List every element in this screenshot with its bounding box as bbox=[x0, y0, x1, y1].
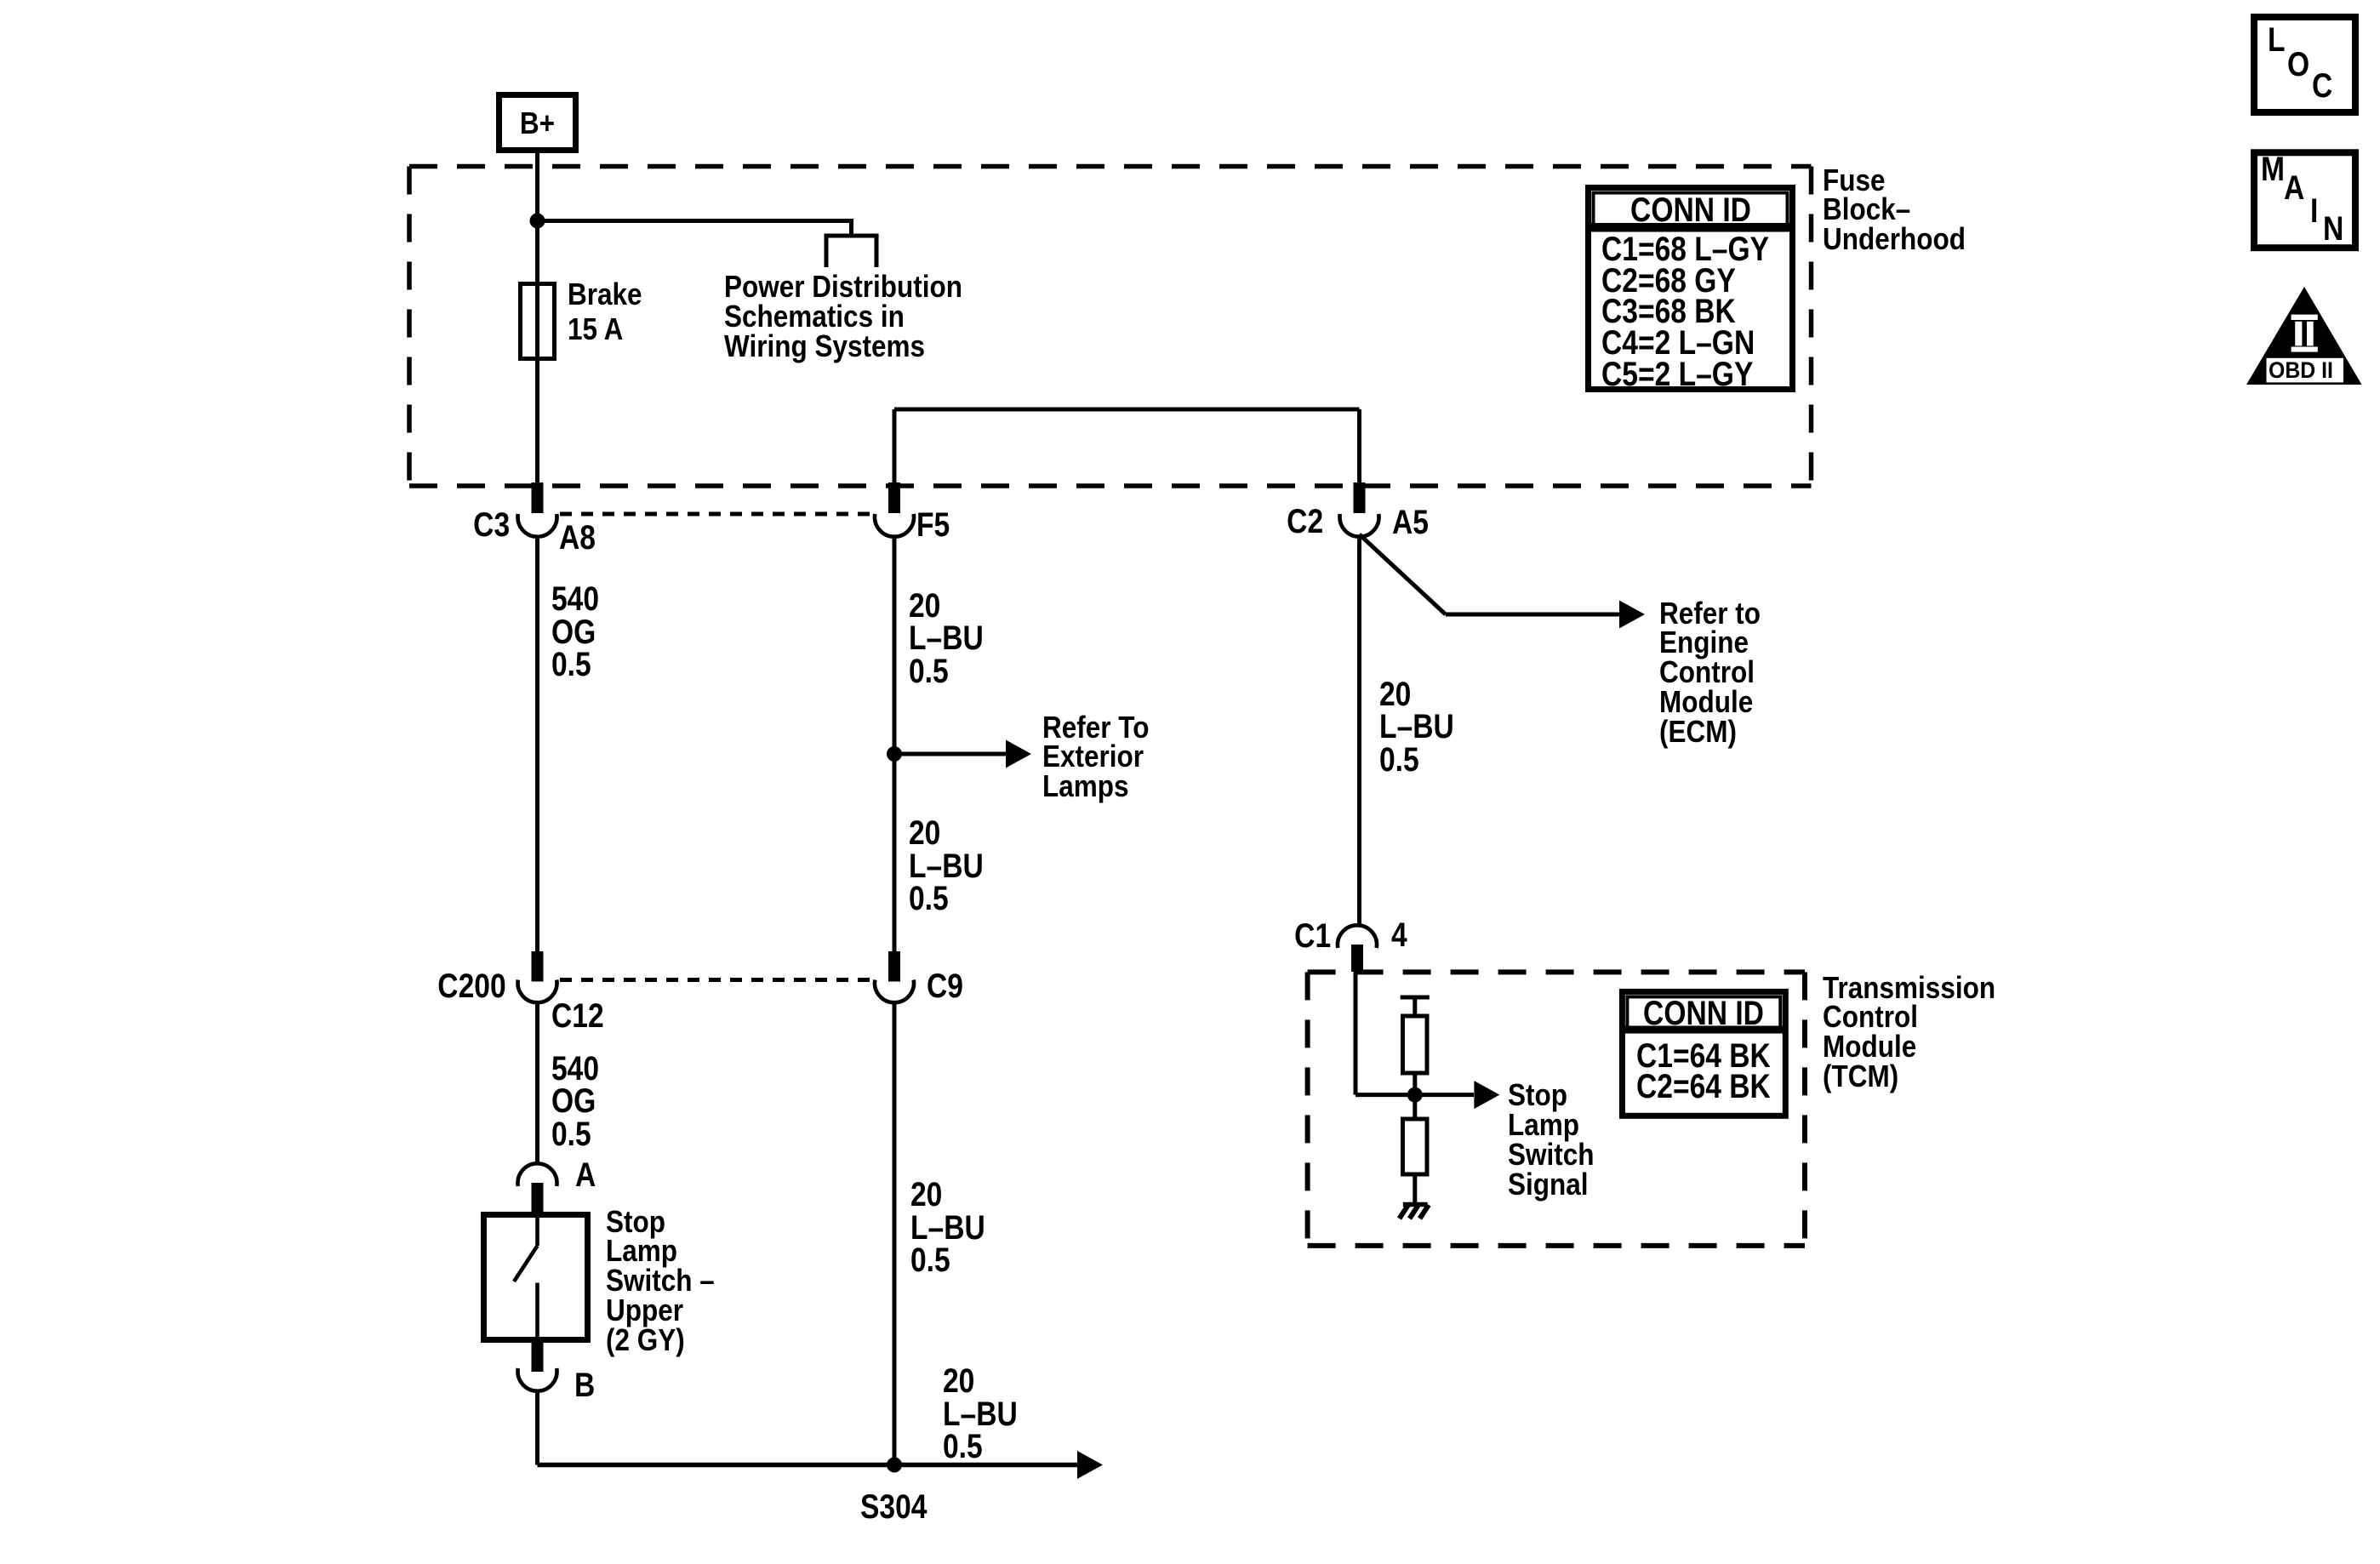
label C1 bbox=[1294, 920, 1331, 953]
label A bbox=[575, 1159, 596, 1192]
fuse Brake 15 A bbox=[521, 284, 555, 359]
off-page bracket (power distribution) bbox=[825, 236, 879, 267]
label stop lamp switch upper bbox=[606, 1207, 715, 1356]
wire label 20 L-BU 0.5 at C9 bbox=[910, 1179, 985, 1277]
connector C1/4 pin bbox=[1351, 945, 1363, 972]
switch contacts bbox=[514, 1212, 538, 1343]
note power distribution schematics bbox=[724, 272, 962, 361]
wire branch to power distribution bracket bbox=[538, 219, 852, 236]
wire junction to resistor lower bbox=[1413, 1095, 1417, 1119]
connector C9 terminal cup bbox=[875, 980, 914, 1003]
OBD II triangle symbol bbox=[2246, 287, 2362, 385]
junction node on B+ feed bbox=[530, 214, 545, 229]
connector F5 terminal cup bbox=[875, 514, 914, 537]
LOC letters bbox=[2268, 24, 2286, 57]
pull-up terminal bar bbox=[1401, 997, 1430, 1016]
CONN ID table (TCM) bbox=[1622, 991, 1786, 1116]
TCM dashed border bbox=[1308, 972, 1805, 1246]
wire 540 OG C200 to switch bbox=[535, 1003, 539, 1164]
note refer to ECM bbox=[1659, 599, 1761, 747]
wire 20 L-BU F5 down bbox=[893, 537, 897, 951]
note stop lamp switch signal bbox=[1508, 1081, 1595, 1199]
label A5 bbox=[1392, 506, 1429, 539]
CONN ID header (fuse block) bbox=[1603, 195, 1778, 226]
connector C2/A5 terminal cup bbox=[1340, 514, 1379, 537]
connector C3/A8 terminal cup bbox=[518, 514, 557, 537]
connector C1/4 arc bbox=[1338, 925, 1377, 948]
bottom wire to S304 and onward arrow bbox=[538, 1451, 1104, 1479]
label F5 bbox=[916, 509, 950, 542]
wire label 20 L-BU 0.5 below exterior lamps tap bbox=[909, 817, 984, 916]
wire 20 L-BU C2 down to C1 bbox=[1357, 537, 1361, 925]
connector C200/C12 terminal cup bbox=[518, 980, 557, 1003]
wire resistor to junction bbox=[1413, 1073, 1417, 1095]
label S304 bbox=[860, 1491, 927, 1524]
junction node stop lamp switch signal bbox=[1407, 1087, 1423, 1103]
wire C1 into TCM bbox=[1356, 972, 1415, 1095]
wire resistor to ground bbox=[1413, 1174, 1417, 1202]
connector C200/C12 pin bbox=[532, 951, 544, 982]
connector C9 pin bbox=[888, 951, 900, 982]
CONN ID header (TCM) bbox=[1635, 998, 1772, 1030]
note fuse block underhood bbox=[1823, 166, 1966, 254]
wire label 20 L-BU 0.5 at C2 bbox=[1379, 678, 1454, 777]
connector A arc bbox=[518, 1163, 557, 1186]
label B bbox=[574, 1369, 595, 1402]
wire label 20 L-BU 0.5 at F5 bbox=[909, 590, 984, 688]
MAIN symbol box bbox=[2254, 152, 2355, 248]
CONN ID table (fuse block) bbox=[1588, 188, 1793, 390]
label C9 bbox=[927, 970, 963, 1003]
wire label 20 L-BU 0.5 at S304 bbox=[943, 1365, 1018, 1464]
inline connector dashed line C3-F5 bbox=[560, 512, 871, 517]
label 4 bbox=[1391, 919, 1407, 952]
OBD II text bbox=[2269, 359, 2333, 382]
label C2 bbox=[1287, 505, 1323, 539]
wire 540 OG C3 to C200 bbox=[535, 537, 539, 951]
label C200 bbox=[438, 970, 506, 1003]
inline connector dashed line C200-C9 bbox=[560, 978, 871, 982]
wire label 540 OG 0.5 lower bbox=[551, 1053, 599, 1151]
branch wire to ECM arrow bbox=[1360, 534, 1646, 629]
splice node S304 bbox=[887, 1458, 902, 1473]
MAIN letters bbox=[2261, 153, 2285, 186]
note transmission control module TCM bbox=[1823, 973, 1995, 1092]
label B+ bbox=[501, 109, 574, 139]
arrow stop lamp switch signal bbox=[1415, 1081, 1500, 1109]
wire switch B down bbox=[535, 1391, 539, 1465]
wire label 540 OG 0.5 upper bbox=[551, 583, 599, 682]
fuse block dashed border bbox=[409, 167, 1812, 487]
wire C9 down to S304 bbox=[893, 1003, 897, 1465]
CONN ID rows (fuse block) bbox=[1601, 234, 1769, 391]
label A8 bbox=[559, 522, 596, 555]
power symbol B+ box bbox=[499, 95, 576, 151]
LOC symbol box bbox=[2254, 17, 2355, 112]
connector F5 pin bbox=[888, 482, 900, 513]
label Brake 15 A bbox=[568, 277, 642, 346]
junction to exterior lamps bbox=[887, 746, 902, 762]
wire B+ stem down to fuse block bbox=[535, 153, 539, 482]
resistor R upper bbox=[1403, 1016, 1428, 1073]
resistor R lower bbox=[1403, 1119, 1428, 1174]
wire from F5 branch to C2 branch inside fuse block bbox=[894, 409, 1360, 482]
connector A pin bbox=[532, 1183, 544, 1212]
connector B pin bbox=[532, 1343, 544, 1372]
connector C2/A5 pin bbox=[1354, 482, 1366, 513]
connector B terminal cup bbox=[518, 1368, 557, 1391]
CONN ID rows (TCM) bbox=[1636, 1041, 1771, 1104]
stop lamp switch box bbox=[484, 1215, 588, 1340]
note refer to exterior lamps bbox=[1042, 713, 1149, 802]
label C12 bbox=[551, 1000, 604, 1033]
connector C3/A8 pin bbox=[532, 482, 544, 513]
arrow wire to exterior lamps bbox=[894, 740, 1031, 768]
label C3 bbox=[473, 509, 510, 542]
ground chassis symbol bbox=[1400, 1205, 1430, 1219]
